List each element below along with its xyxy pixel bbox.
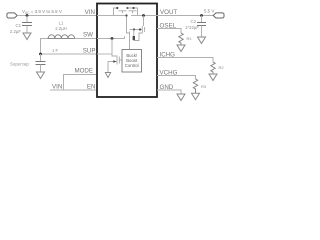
svg-text:VIN: VIN xyxy=(52,84,62,91)
ground C2 xyxy=(198,37,206,44)
wire EN pin to VIN net xyxy=(50,89,97,91)
inductor L1 xyxy=(48,35,75,39)
node rail riser junction xyxy=(125,14,127,16)
svg-text:ICHG: ICHG xyxy=(160,52,176,59)
resistor R1 xyxy=(179,33,183,45)
svg-text:GND: GND xyxy=(160,84,174,91)
ground supercap xyxy=(37,72,45,79)
wire SUP node to supercap xyxy=(40,54,42,62)
node Q1-Q2 xyxy=(126,7,128,9)
node SUP junction xyxy=(39,53,42,56)
ground C1 xyxy=(23,33,31,40)
node internal rail a xyxy=(133,28,135,30)
wire C1 to ground xyxy=(26,26,28,34)
internal wire VIN rail xyxy=(97,15,127,17)
svg-text:Control: Control xyxy=(125,63,139,68)
svg-text:C1: C1 xyxy=(16,23,22,28)
power tag VOUT xyxy=(213,13,224,18)
node Q1 drain xyxy=(116,7,118,9)
wire VOUT node to C2 xyxy=(201,16,203,23)
wire inductor to SW pin xyxy=(75,38,97,40)
transistor Q3 buck-boost low side xyxy=(108,39,122,73)
wire supercap to ground xyxy=(40,65,42,73)
wire SW pin internal xyxy=(97,36,125,39)
transistor Q1 input switch xyxy=(114,8,127,16)
svg-text:VCHG: VCHG xyxy=(160,70,178,77)
svg-text:SUP: SUP xyxy=(83,48,96,55)
wire SUP node to inductor xyxy=(41,39,48,55)
wire C2 to ground xyxy=(201,26,203,38)
power tag VAC xyxy=(7,13,17,18)
transistor Q5 rectifier xyxy=(130,26,145,33)
IC U1 body xyxy=(97,4,157,98)
svg-text:C2: C2 xyxy=(191,19,197,24)
svg-text:R3: R3 xyxy=(201,84,207,89)
internal wire control box top stub xyxy=(129,40,131,50)
internal wire VOUT rail xyxy=(131,15,157,17)
node internal rail b xyxy=(139,28,141,30)
ground GND pin xyxy=(177,94,185,101)
svg-text:2.2µF: 2.2µF xyxy=(10,29,21,34)
internal wire VOUT to Q5 xyxy=(143,16,145,27)
node Q3 body arrow xyxy=(113,60,117,63)
svg-text:2.2µH: 2.2µH xyxy=(55,26,67,31)
block Buck/Boost Control xyxy=(122,50,142,73)
capacitor C1 xyxy=(22,23,32,26)
svg-text:MODE: MODE xyxy=(74,68,93,75)
svg-text:5.5 V: 5.5 V xyxy=(204,9,214,14)
node SW junction xyxy=(111,37,114,40)
node VOUT junction xyxy=(200,14,203,17)
svg-text:1 F: 1 F xyxy=(52,48,58,53)
wire VAC to VIN pin xyxy=(17,15,97,17)
svg-text:1*22µF: 1*22µF xyxy=(185,25,199,30)
svg-text:OSEL: OSEL xyxy=(160,23,177,30)
internal wire rail riser xyxy=(127,16,130,42)
capacitor C2 xyxy=(197,23,206,26)
ground R3 xyxy=(192,93,200,100)
node Q4 arrow xyxy=(133,36,135,40)
node Q2 source xyxy=(132,7,134,9)
wire VOUT pin to tag xyxy=(157,15,213,17)
svg-text:VOUT: VOUT xyxy=(160,9,177,16)
ground internal (Q3 source) xyxy=(105,73,110,78)
wire ICHG pin to R2 xyxy=(157,58,213,63)
transistor Q4 xyxy=(134,30,143,41)
svg-text:Supercap: Supercap xyxy=(10,62,29,67)
svg-text:VIN: VIN xyxy=(85,9,95,16)
svg-text:SW: SW xyxy=(83,32,93,39)
resistor R2 xyxy=(211,62,215,74)
wire VCHG pin to R3 xyxy=(157,76,196,80)
svg-text:EN: EN xyxy=(87,84,96,91)
svg-text:R2: R2 xyxy=(219,65,225,70)
transistor Q2 input switch xyxy=(128,8,138,15)
resistor R3 xyxy=(193,79,197,93)
wire GND pin xyxy=(157,90,181,94)
node VOUT rail junction xyxy=(142,14,145,17)
svg-text:VAC = 3.9 V to 5.5 V: VAC = 3.9 V to 5.5 V xyxy=(22,9,62,15)
wire VAC node to C1 xyxy=(26,16,28,23)
ground R1 xyxy=(177,45,185,52)
node VAC junction xyxy=(26,14,29,17)
svg-text:R1: R1 xyxy=(187,36,193,41)
capacitor C3 supercap xyxy=(36,62,46,65)
svg-text:L1: L1 xyxy=(59,21,64,26)
wire OSEL pin to R1 xyxy=(157,29,181,34)
wire MODE pin xyxy=(64,75,98,91)
wire SUP pin internal xyxy=(97,53,112,55)
wire SUP node to SUP pin xyxy=(41,53,98,55)
ground R2 xyxy=(209,74,217,81)
